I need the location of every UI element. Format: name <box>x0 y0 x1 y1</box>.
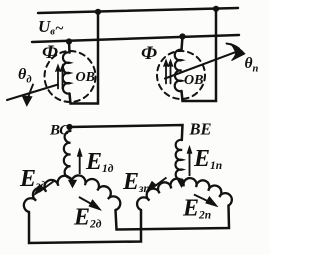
wire: right coil bottom return <box>182 9 217 102</box>
arrow E1P <box>189 150 191 176</box>
flux arrows inside receiver <box>166 63 171 84</box>
node: receiver star point <box>178 180 186 187</box>
winding E1P (receiver phase 1 coil) <box>175 140 182 180</box>
svg-text:ВЕ: ВЕ <box>189 120 212 139</box>
svg-text:ОВ: ОВ <box>76 70 95 85</box>
arrow E3D <box>39 181 54 192</box>
svg-text:Ф: Ф <box>141 43 157 64</box>
winding E1D (transmitter phase 1 coil) <box>64 131 71 178</box>
shaft arrow theta_d (transmitter rotor axis) <box>7 85 58 101</box>
wire: left excitation drop from bus to coil <box>68 42 71 53</box>
arrow E2P <box>194 195 213 204</box>
wire: top supply bus <box>38 8 238 13</box>
machine body: transmitter dashed circle <box>45 51 96 102</box>
winding OB (right field coil) <box>175 50 182 91</box>
arrow E1D <box>79 153 81 174</box>
svg-text:Eзп: Eзп <box>122 169 150 195</box>
wire: rail joining BC to BE terminals <box>69 125 183 140</box>
wire: lower rail (phase 3 link) <box>29 210 141 243</box>
svg-text:Uв~: Uв~ <box>38 17 64 38</box>
svg-text:E2п: E2п <box>182 196 211 222</box>
wire: right excitation drop from bus to coil <box>182 37 183 51</box>
junction dots <box>66 6 219 130</box>
svg-text:ВС: ВС <box>49 123 70 139</box>
arrow E3P <box>152 178 167 189</box>
winding: receiver stator arch (E2P/E3P) <box>137 178 232 210</box>
wire: upper rail (phase 2 link) <box>116 206 230 230</box>
curved angle arrow theta_p <box>227 44 240 49</box>
wire: left coil bottom return <box>70 12 99 104</box>
svg-text:θд: θд <box>18 66 32 86</box>
machine body: receiver dashed circle <box>157 51 205 99</box>
node: transmitter star point <box>69 180 77 187</box>
arrow E2D <box>79 197 96 207</box>
winding OB (left field coil) <box>63 52 70 93</box>
wire: second supply bus <box>32 35 239 42</box>
shaft arrow theta_p (receiver rotor axis) <box>165 51 238 78</box>
svg-text:E1п: E1п <box>193 146 222 172</box>
winding: transmitter stator arch (E2D/E3D) <box>24 175 120 212</box>
curved angle arrow theta_d <box>28 85 34 101</box>
svg-text:Ф: Ф <box>42 42 58 63</box>
svg-text:θп: θп <box>245 55 259 75</box>
svg-text:ОВ: ОВ <box>184 73 203 88</box>
svg-text:Eзд: Eзд <box>19 166 46 192</box>
svg-text:E1д: E1д <box>85 149 114 175</box>
flux arrows inside transmitter <box>58 68 63 89</box>
EMF arrows <box>34 146 219 211</box>
